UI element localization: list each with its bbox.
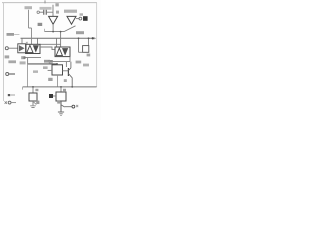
Q2 emitter diag <box>61 105 65 107</box>
junction dot E3 <box>71 86 73 88</box>
label tick (top, x45) <box>44 0 46 3</box>
wire diagonal from U2 <box>64 26 76 32</box>
terminal circle input 3 <box>5 47 8 50</box>
label 18 <box>48 78 52 81</box>
label SW (node A) <box>38 23 43 26</box>
label x (right of wire) <box>56 11 59 14</box>
label 17 leader <box>34 102 37 105</box>
border frame top <box>2 2 97 4</box>
wire X2 right edge down <box>69 57 71 62</box>
dash from 5 <box>11 102 16 104</box>
ground G2 <box>58 112 64 115</box>
wire box C to Q1 base <box>63 70 69 72</box>
wire box C bottom to bus E <box>57 75 59 87</box>
label 6 dash <box>11 94 15 96</box>
junction dot B1 <box>78 37 80 39</box>
wire into box C left <box>48 69 52 71</box>
label pair left 2 <box>20 61 26 64</box>
label MR (top-left) <box>25 6 33 9</box>
wire from label MR down <box>29 10 32 45</box>
border frame left <box>3 3 5 101</box>
label above capacitor <box>40 7 52 10</box>
junction vertical x88.5 <box>88 38 90 45</box>
SW leader dash <box>14 34 19 36</box>
Q2 output wire <box>65 106 72 108</box>
junction dot B2 <box>88 37 90 39</box>
labels 4b (right) <box>83 64 89 67</box>
wire down to Q1 <box>65 62 67 67</box>
wire box D down <box>32 101 34 105</box>
component box E <box>56 92 66 101</box>
X1 triangle b (filled, apex down) <box>33 45 39 52</box>
X2 triangle a (outline, apex up) <box>56 48 62 56</box>
label 9 cross (right of terminal) <box>76 105 78 107</box>
op-amp U1 (left triangle) <box>49 16 58 24</box>
output terminal circle <box>72 105 75 108</box>
label 16 dash a <box>48 60 53 61</box>
box T inner triangle <box>19 45 25 51</box>
wire U1 apex down <box>52 24 54 31</box>
control box C <box>52 65 63 75</box>
label under small box <box>87 54 91 57</box>
label 6 dot (bottom-left) <box>8 94 10 96</box>
label z2 <box>64 79 67 82</box>
bus wire B (long horizontal) <box>21 37 93 39</box>
arrowhead (right end of B) <box>94 37 96 39</box>
label z (below box T) <box>21 56 25 59</box>
wire label leader <box>44 29 46 32</box>
wire U2 output right <box>76 18 79 20</box>
label 3 (below terminal) <box>5 55 10 58</box>
label SW (left) <box>7 33 15 36</box>
junction dot E1 <box>32 86 34 88</box>
junction dot A0 <box>52 31 54 33</box>
hook at E left end <box>22 87 24 90</box>
wire box T up to bus B <box>21 38 23 44</box>
wire capacitor to node <box>47 11 53 13</box>
label 16 dash b <box>49 62 53 63</box>
terminal circle (right) <box>79 17 82 20</box>
op-amp U2 (right triangle) <box>67 16 76 24</box>
small box R (right) <box>83 46 89 53</box>
wire X1 to X2 <box>40 47 55 50</box>
transistor Q1 bar <box>67 68 69 76</box>
label below D <box>43 66 48 69</box>
label 40 (above circle) <box>80 13 84 15</box>
wire input to box T <box>8 47 17 49</box>
input box T with cross <box>18 44 26 53</box>
label pair left <box>8 60 16 63</box>
wire into box1 right pin <box>37 38 39 44</box>
wire down to box2 <box>60 32 62 47</box>
Q1 collector <box>68 62 71 71</box>
dash from terminal <box>9 73 15 75</box>
wire to capacitor <box>39 11 43 13</box>
junction dot E2 <box>60 86 62 88</box>
label 15a (above box E) <box>63 89 66 91</box>
Q2 label blob <box>57 101 60 104</box>
component box D <box>29 93 37 101</box>
arrow terminal (right end of B) <box>92 37 94 39</box>
label 20b <box>76 31 84 34</box>
terminal circle 5 <box>8 101 11 104</box>
junction blob under X1 <box>24 57 26 59</box>
label T-deno (above U2) <box>64 10 77 13</box>
wire down to amp U1 <box>52 5 54 17</box>
driver box X2 <box>55 47 70 57</box>
terminal circle (capacitor input) <box>37 11 39 13</box>
junction vertical x78.5 <box>78 38 80 52</box>
label 17 <box>36 101 39 104</box>
wire down from X1 <box>27 58 29 64</box>
label mid (under D) <box>33 70 38 73</box>
wire under X2 <box>50 61 70 63</box>
bus wire C (right of X1) <box>40 43 61 45</box>
label cross (box T corner) <box>26 42 28 44</box>
bus wire D <box>28 63 57 65</box>
label 5 cross <box>5 101 7 103</box>
node wire A horizontal <box>45 31 65 33</box>
terminal circle (left mid) <box>6 73 9 76</box>
filled block (dark square) <box>83 16 88 21</box>
capacitor C (plates) <box>44 10 46 15</box>
wire E down to box E <box>60 87 62 92</box>
bus wire E (bottom long) <box>23 86 97 88</box>
label 2b above D <box>44 60 50 63</box>
junction dot A1 <box>60 31 62 33</box>
wire under X1 <box>24 57 41 59</box>
Q1 emitter <box>68 74 72 87</box>
wire box E to Q2 <box>60 101 62 112</box>
wire D down to E (left) <box>27 64 29 87</box>
wire square to box E <box>53 95 56 97</box>
wire under small box <box>79 51 83 53</box>
wire E down to box D <box>32 87 34 93</box>
label 15 (above box D) <box>35 89 38 91</box>
X2 triangle b (filled, apex down) <box>62 48 68 56</box>
filled square input <box>49 94 53 98</box>
labels 2a (right) <box>76 61 82 64</box>
wire x56.5 into box2 <box>56 38 58 47</box>
junction dot D1 <box>56 63 58 65</box>
driver box X1 <box>26 44 40 53</box>
X1 triangle a (outline, apex up) <box>27 45 33 52</box>
label 4 (top) <box>55 3 58 6</box>
wire D down into box C <box>56 63 58 66</box>
border frame right <box>96 3 98 87</box>
ground G1 <box>30 106 36 108</box>
